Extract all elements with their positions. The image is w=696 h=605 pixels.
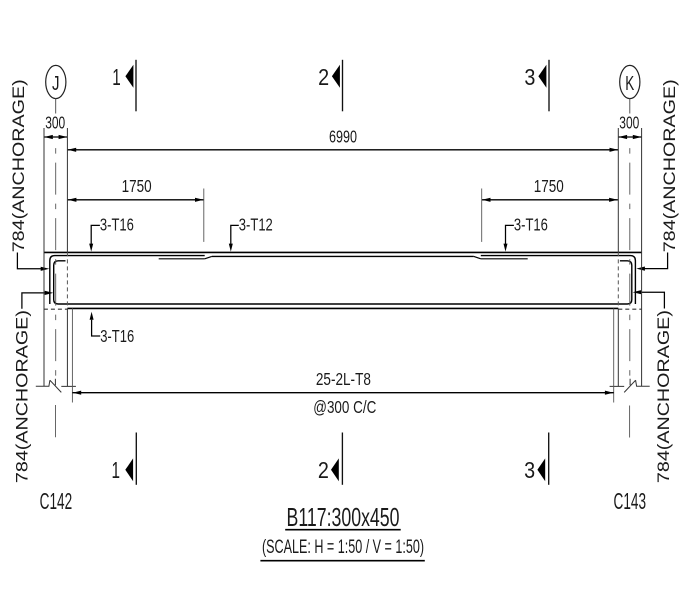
right column centerline: [629, 148, 631, 378]
svg-text:3-T16: 3-T16: [100, 326, 134, 346]
leader anchorage bottom-right: [633, 290, 665, 308]
top bar ramp left: [205, 256, 212, 258]
label 3-T16 top-left with leader: [89, 215, 134, 252]
right column inner face above beam: [617, 128, 619, 252]
svg-text:1750: 1750: [122, 176, 152, 196]
left column inner face above beam: [66, 128, 68, 252]
top bar 3-T16 left with hook: [50, 256, 205, 304]
left column outer face: [43, 128, 45, 386]
beam bottom edge hidden in right column: [618, 308, 641, 310]
right column break symbol: [610, 379, 650, 393]
beam top edge: [44, 251, 642, 253]
svg-text:2: 2: [318, 64, 329, 90]
beam bottom edge: [67, 307, 618, 309]
svg-text:784(ANCHORAGE): 784(ANCHORAGE): [12, 310, 31, 483]
section marker 2 bottom: [318, 433, 343, 485]
right column outer face: [641, 128, 643, 386]
grid bubble K: [620, 65, 640, 98]
svg-text:3: 3: [524, 457, 535, 483]
bottom bar 3-T16 with up hooks: [54, 261, 632, 304]
svg-text:300: 300: [619, 113, 639, 133]
label 3-T16 top-right with leader: [504, 215, 548, 252]
top bar 3-T12 middle: [212, 255, 474, 257]
section marker 1 bottom: [112, 433, 137, 485]
stirrup dimension 25-2L-T8 @300 C/C: [72, 369, 613, 417]
svg-text:3-T12: 3-T12: [239, 215, 273, 235]
svg-text:3-T16: 3-T16: [100, 215, 134, 235]
stem below bubble K: [629, 98, 631, 113]
left column inner face below beam: [66, 308, 68, 386]
svg-text:25-2L-T8: 25-2L-T8: [316, 369, 371, 389]
svg-text:6990: 6990: [329, 127, 357, 147]
top bar 3-T16 right with hook: [481, 256, 636, 304]
svg-text:B117:300x450: B117:300x450: [287, 502, 400, 532]
top bar ramp right: [474, 256, 481, 258]
svg-text:3: 3: [524, 64, 535, 90]
svg-text:K: K: [625, 73, 634, 95]
stem below bubble J: [55, 98, 57, 113]
svg-text:3-T16: 3-T16: [514, 215, 548, 235]
svg-text:J: J: [52, 73, 60, 95]
svg-text:@300 C/C: @300 C/C: [313, 397, 376, 417]
stirrup dimension extension left: [71, 308, 73, 402]
svg-text:1: 1: [112, 457, 121, 483]
svg-text:(SCALE: H = 1:50 / V = 1:50): (SCALE: H = 1:50 / V = 1:50): [262, 537, 424, 558]
left column break symbol: [36, 379, 76, 393]
svg-text:784(ANCHORAGE): 784(ANCHORAGE): [660, 79, 679, 252]
leader anchorage top-right: [636, 253, 667, 271]
svg-text:2: 2: [318, 457, 329, 483]
section marker 3 bottom: [524, 433, 549, 485]
label 3-T16 bottom-left with leader: [90, 312, 135, 346]
dimension 1750 left: [68, 176, 204, 242]
top bar T12 lap tail left: [159, 258, 205, 260]
stirrup dimension extension right: [613, 308, 615, 402]
label 3-T12 top-middle with leader: [229, 215, 273, 252]
left column inner face hidden in beam: [66, 252, 68, 308]
svg-text:1: 1: [112, 64, 121, 90]
title underline: [285, 529, 401, 531]
right column inner face below beam: [617, 308, 619, 386]
dimension 6990: [67, 127, 618, 152]
leader anchorage bottom-left: [22, 291, 53, 309]
dimension 300 left: [44, 113, 67, 140]
left column centerline: [55, 148, 57, 378]
section marker 2 top: [318, 60, 342, 112]
svg-text:784(ANCHORAGE): 784(ANCHORAGE): [654, 310, 673, 483]
grid bubble J: [46, 65, 66, 98]
beam bottom edge hidden in left column: [44, 308, 68, 310]
top bar T12 lap tail right: [481, 258, 528, 260]
leader anchorage top-left: [17, 253, 49, 271]
scale note underline: [260, 560, 424, 562]
svg-text:1750: 1750: [534, 176, 564, 196]
dimension 300 right: [618, 113, 641, 140]
right column inner face hidden in beam: [617, 252, 619, 308]
svg-text:784(ANCHORAGE): 784(ANCHORAGE): [9, 79, 28, 252]
section marker 3 top: [524, 60, 549, 112]
svg-text:300: 300: [45, 113, 65, 133]
svg-text:C142: C142: [40, 488, 73, 514]
section marker 1 top: [112, 60, 136, 112]
svg-text:C143: C143: [614, 488, 647, 514]
dimension 1750 right: [482, 176, 618, 242]
